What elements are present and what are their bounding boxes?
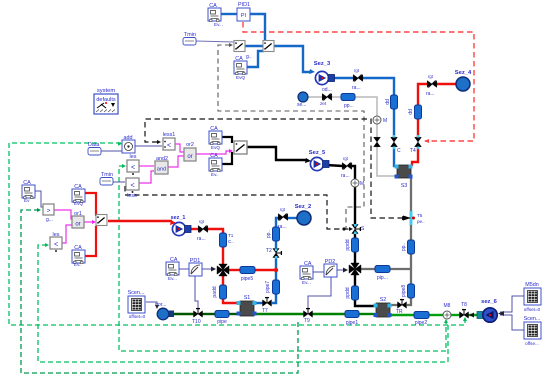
heat exchanger S2 — [374, 303, 392, 317]
svg-text:Scen...: Scen... — [128, 290, 145, 296]
block les2 — [50, 237, 62, 252]
wire blue valve C1 to S3 — [394, 145, 397, 166]
svg-text:ppdd: ppdd — [345, 239, 351, 250]
wire purple PD2 down to valve T9 — [308, 277, 331, 308]
svg-text:Sez_5: Sez_5 — [309, 150, 326, 156]
block switchR — [96, 215, 107, 226]
svg-text:od...: od... — [322, 87, 332, 93]
wire darkgreen pump rtor to valve T10 — [170, 313, 194, 315]
valve T10 on darkgreen — [194, 309, 203, 318]
svg-text:pp..: pp.. — [401, 243, 407, 251]
svg-text:Sez_2: Sez_2 — [295, 204, 311, 210]
wire black M6 down to valve S — [354, 187, 356, 225]
wire blue Sez_3 to valve ra3 — [331, 77, 354, 79]
svg-text:CA: CA — [209, 3, 217, 9]
block PID1 — [237, 8, 250, 21]
pump sez_1 — [172, 222, 191, 235]
svg-text:<: < — [54, 242, 58, 249]
svg-text:rgt: rgt — [428, 74, 434, 79]
svg-text:Ev..: Ev.. — [211, 172, 219, 177]
block Scen2 — [524, 322, 541, 339]
valve T7 on blue to S1 — [263, 298, 272, 307]
svg-text:pipe8: pipe8 — [401, 285, 407, 297]
heat exchanger S1 — [237, 301, 257, 316]
sensor se filled circle — [298, 92, 308, 102]
svg-text:se...: se... — [297, 102, 306, 108]
wire darkgreen pipe4 to S1 — [229, 313, 238, 315]
block CA red top — [72, 189, 85, 203]
junction red on blue pipe — [274, 268, 278, 272]
svg-text:offset=0: offset=0 — [129, 314, 146, 319]
valve T9 on green — [304, 309, 313, 318]
svg-text:offset=0: offset=0 — [524, 307, 541, 312]
wire purple CA4 to PD1 — [178, 268, 189, 270]
wire black valve S down through ppdd to X2 — [354, 233, 356, 263]
svg-text:or: or — [75, 222, 80, 228]
pipe rect ppdd on black sez5 line — [352, 238, 359, 252]
wire green dashed A: add block to valve T8 — [9, 143, 465, 325]
svg-text:ra...: ra... — [278, 224, 287, 230]
svg-text:EvQ: EvQ — [236, 75, 245, 80]
svg-text:T9: T9 — [304, 318, 310, 324]
svg-text:T2: T2 — [266, 248, 272, 254]
svg-text:Ev..: Ev.. — [74, 262, 82, 267]
svg-text:sez_6: sez_6 — [481, 299, 498, 305]
svg-text:T8: T8 — [461, 302, 467, 308]
svg-text:ppdd: ppdd — [345, 287, 351, 298]
wire gray dashed: switch1 down around to valve S junction — [218, 45, 364, 229]
wire blue switch2 to pump Sez_3 — [274, 46, 312, 72]
svg-text:M8: M8 — [444, 303, 451, 309]
wire blue valve ra3 down to valve C1 — [362, 78, 394, 139]
wire magenta g to or1 — [54, 210, 72, 219]
svg-text:S1: S1 — [244, 295, 251, 301]
wire blue CA3 loop to switch2 bottom — [247, 51, 264, 67]
wire purple Tmin2 to less — [113, 181, 125, 183]
GREEN-DASHED-GROUP — [9, 142, 467, 373]
sensor M8 — [443, 311, 451, 319]
svg-text:EvQ: EvQ — [74, 201, 83, 206]
wire green S1 to valve T9 — [256, 313, 304, 315]
svg-text:less1: less1 — [163, 132, 176, 138]
block and2 — [155, 161, 168, 174]
wire black Sez_5 to valve ra5 — [326, 165, 343, 166]
wire purple CA6 to g block — [34, 191, 43, 207]
arrow green into add — [118, 142, 122, 146]
wire red switchR to pump sez_1 — [108, 220, 172, 222]
block PD1 gauge — [189, 263, 202, 276]
wire gray sensor se to valve zet — [308, 96, 323, 98]
block switch1 — [234, 41, 245, 52]
wire red pump Sez_4 to valve ra4 — [437, 83, 457, 85]
pipe rect pipe5 on red X1 line — [240, 267, 255, 274]
valve ra5 on black — [342, 162, 352, 169]
pipe rect pipe8 on gray pipe — [408, 284, 415, 298]
wire magenta les2 to or1 — [62, 225, 72, 243]
svg-text:or1: or1 — [74, 211, 82, 217]
wire magenta and2 to or2 — [168, 156, 184, 167]
wire purple PD2 to X2 with arrow — [337, 269, 344, 271]
X valve X1 red circuit — [217, 264, 229, 276]
sensor T5 on gray pipe — [403, 211, 415, 225]
svg-text:CA: CA — [23, 180, 31, 186]
pump Sez_2 filled — [297, 211, 311, 225]
svg-text:CA: CA — [304, 261, 312, 267]
svg-text:rgt: rgt — [354, 68, 360, 73]
block les — [127, 160, 139, 175]
svg-text:PID1: PID1 — [238, 2, 250, 8]
svg-text:>: > — [47, 208, 51, 215]
arrow green up into M8 — [444, 319, 448, 323]
svg-text:Sez_4: Sez_4 — [455, 70, 472, 76]
valve C1 on blue riser — [391, 137, 398, 147]
svg-text:ra...: ra... — [352, 85, 361, 91]
pipe rect pip6 on gray X2 line — [375, 266, 390, 273]
svg-text:S3: S3 — [401, 183, 408, 189]
svg-text:padd: padd — [212, 286, 218, 297]
wire gray pipe pp3 to M7 riser — [355, 97, 377, 116]
svg-text:Scen...: Scen... — [524, 316, 541, 322]
block CA6 top-left — [22, 185, 35, 199]
pipe rect pipe1 on green line — [345, 311, 359, 318]
wire red CA to switchR top — [85, 193, 96, 216]
svg-text:add: add — [124, 135, 133, 141]
svg-text:Tmin: Tmin — [101, 172, 113, 178]
wire gray pipe sensor T5 down to junction — [410, 222, 412, 284]
svg-text:EvQ: EvQ — [211, 145, 220, 150]
svg-text:C: C — [397, 148, 401, 154]
wire purple M5dn to pump sez_6 — [500, 296, 524, 312]
wire black valve ra5 down to M6 — [351, 166, 355, 179]
wire purple Tmin to switch1 — [196, 41, 234, 42]
wire green dashed B: les block to sensor M8 — [119, 166, 446, 351]
valve ra2 on blue — [278, 213, 288, 220]
svg-text:pp...: pp... — [344, 103, 354, 109]
valve ra4 on red — [427, 80, 437, 87]
arrow green into les2 — [45, 243, 49, 247]
svg-text:less: less — [127, 193, 137, 199]
sensor M6 — [351, 179, 359, 187]
block Scen bottom-left — [128, 296, 145, 313]
pipe rect ppdd2 on black sez5 line — [352, 286, 359, 300]
pump Sez_4 filled — [456, 77, 470, 91]
wire red X1 right through pipe5 to blue junction — [229, 269, 240, 271]
svg-text:pipe5: pipe5 — [241, 276, 253, 282]
block CA5 at PD2 — [300, 266, 313, 280]
pipe rect pp3 on gray sensor line — [341, 94, 355, 101]
arrow into sensor T5 — [402, 216, 407, 220]
wire black switch3 to pump Sez_5 — [247, 147, 307, 160]
svg-text:dd: dd — [385, 99, 391, 105]
svg-text:C..: C.. — [228, 239, 234, 244]
valve ra1 on red — [198, 225, 208, 232]
svg-text:and: and — [157, 167, 166, 173]
wire black dashed: middle group rect from less block to valve S — [125, 186, 349, 229]
svg-text:g..: g.. — [246, 54, 252, 60]
svg-text:pipe: pipe — [217, 319, 227, 325]
valve S on black riser with actuator — [352, 225, 361, 234]
svg-text:pipe2: pipe2 — [415, 320, 427, 326]
arrow into less1 — [157, 140, 161, 144]
svg-text:zet: zet — [320, 101, 327, 106]
svg-text:CA: CA — [235, 56, 243, 62]
svg-text:Data: Data — [88, 142, 99, 148]
wire darkgreen valve T10 to pipe4 — [202, 313, 215, 315]
svg-text:pipe1: pipe1 — [346, 320, 358, 326]
block less — [126, 178, 139, 193]
svg-text:rtor...: rtor... — [155, 302, 166, 308]
svg-text:ra...: ra... — [426, 91, 435, 97]
pipe rect pipe7 on blue sez2 line — [273, 280, 280, 294]
sensor M7 — [373, 116, 381, 124]
wire magenta or1 to switchR — [84, 221, 94, 223]
arrow into valve S — [349, 227, 353, 231]
svg-text:T5: T5 — [417, 213, 423, 218]
arrow green up into T8 — [463, 317, 467, 321]
svg-text:rgt: rgt — [343, 156, 349, 161]
wire gray X2 valve to gray pipe junction — [361, 268, 375, 270]
svg-text:PI: PI — [241, 13, 247, 19]
svg-text:Ev...: Ev... — [214, 22, 223, 27]
wire magenta les to and2 — [139, 165, 154, 167]
svg-text:rgt: rgt — [280, 207, 286, 212]
wire gray valve zet to pipe pp3 — [331, 96, 341, 98]
svg-text:CA: CA — [74, 184, 82, 190]
block CA4 at PD1 — [166, 262, 179, 276]
svg-text:g...: g... — [46, 217, 53, 223]
pipe rect Cad on red sez1 line — [220, 233, 227, 247]
arrow green into g block — [37, 208, 41, 212]
pump sez_6 — [477, 308, 497, 322]
svg-text:M5dn: M5dn — [525, 282, 539, 288]
svg-text:dd: dd — [408, 109, 414, 115]
svg-text:system: system — [97, 88, 116, 94]
svg-text:Ev...: Ev... — [302, 280, 311, 285]
block or2 — [184, 148, 196, 161]
svg-text:CA: CA — [210, 126, 218, 132]
block system defaults — [94, 94, 118, 114]
wire purple PD1 down to valve T10 — [195, 276, 198, 308]
wire purple CA5 to PD2 — [312, 271, 324, 273]
wire green pipe1 to S2 — [359, 313, 375, 315]
svg-text:pe..: pe.. — [417, 219, 425, 224]
block less1 — [163, 138, 175, 150]
wire black CA to switch3 top — [222, 137, 232, 143]
svg-text:T4: T4 — [410, 148, 416, 154]
valve ra3 on blue — [353, 74, 363, 81]
arrow green into les — [122, 164, 126, 168]
wire green M8 to valve T8 — [451, 314, 460, 316]
block CA top (PID source) — [208, 8, 221, 22]
pipe rect pp4 on gray pipe below T5 — [408, 240, 415, 254]
wire red valve ra4 down to valve T4 — [418, 84, 428, 139]
wire purple Scen to pump rtor — [146, 302, 157, 306]
block M5dn — [524, 288, 541, 305]
wire gray pipe8 to valve TR into S2 — [407, 298, 411, 305]
arrow into Sez_3 — [309, 69, 315, 74]
wire green pipe2 to M8 — [429, 314, 443, 316]
X valve X2 black circuit — [349, 263, 361, 275]
svg-text:<: < — [130, 183, 134, 190]
block g greaterEqual — [43, 204, 54, 215]
svg-text:Ev: Ev — [24, 198, 30, 203]
svg-text:or: or — [187, 154, 192, 160]
wire purple Data to add — [101, 150, 122, 152]
wire purple Scen2 to pump sez_6 — [500, 315, 524, 330]
junction dashed wires — [342, 227, 345, 230]
block CA black top — [209, 131, 222, 145]
valve zet on gray — [322, 93, 332, 100]
svg-text:pip...: pip... — [377, 275, 388, 281]
wire blue pipe7 to valve T7 into S1 — [272, 294, 276, 303]
pipe rect pp2 on blue sez2 line — [273, 227, 280, 241]
svg-text:PD2: PD2 — [325, 259, 336, 265]
valve T8 on green — [460, 310, 469, 319]
wire red valve ra1 to Cad pipe — [207, 229, 223, 234]
pipe rect pipe2 on green line — [414, 312, 429, 319]
arrow red dashed into T4 — [424, 139, 429, 143]
block or1 — [72, 216, 84, 228]
wire red X1 down through padd to S1 — [222, 276, 224, 285]
wire black X2 down through ppdd2 to S2 — [355, 275, 375, 306]
svg-text:and2: and2 — [156, 156, 168, 162]
wire red sez_1 to valve ra1 — [188, 228, 199, 230]
wire red Cad down to X1 — [222, 247, 224, 264]
wire purple PD1 to X1 with arrow — [202, 268, 212, 270]
block Tmin2 const — [100, 178, 113, 186]
wire red dashed feedback: PID1 to valve T4 — [243, 22, 474, 141]
arrow into sez_1 — [170, 220, 176, 225]
block switch3 — [234, 141, 247, 154]
wire magenta less to and2 — [139, 171, 154, 183]
wire blue valve ra2 down to pp2 — [276, 218, 279, 228]
svg-text:Ev...: Ev... — [168, 276, 177, 281]
svg-text:ra...: ra... — [197, 236, 206, 242]
block CA red bottom — [72, 250, 85, 264]
wire green valve T8 to pump sez_6 with flow arrow — [468, 314, 478, 316]
wire gray pipe S3 bottom down to sensor T5 — [410, 178, 412, 214]
pipe rect padd on red to S1 — [220, 285, 227, 299]
arrow into Sez_5 — [305, 158, 311, 163]
wire green dashed C: les2 block to T-valve riser — [38, 245, 448, 362]
svg-text:M: M — [360, 181, 364, 187]
svg-text:PD1: PD1 — [190, 258, 201, 264]
wire black dashed: sensor T5 feedback to less1 block — [145, 119, 403, 218]
wire black CA to switch3 bottom — [222, 152, 232, 164]
wire gray M7 down through valve v7 to S3 — [376, 124, 378, 138]
svg-text:<: < — [167, 143, 171, 150]
block Tmin const top — [183, 38, 196, 46]
BLACKDASH-GROUP — [125, 22, 474, 231]
svg-text:pp..: pp.. — [266, 230, 272, 238]
svg-text:rgt: rgt — [199, 219, 205, 224]
wire magenta less1 to or2 — [175, 144, 184, 152]
block Data source — [88, 148, 101, 156]
svg-text:offse...: offse... — [525, 341, 539, 346]
wire blue CA to PID1 — [221, 13, 237, 15]
svg-text:or2: or2 — [186, 142, 194, 148]
block add — [122, 140, 135, 153]
svg-text:M: M — [383, 118, 387, 124]
pipe rect dd2 on red riser — [415, 105, 422, 119]
port marks cyan on risers — [275, 135, 420, 259]
svg-text:T10: T10 — [192, 319, 201, 325]
wire purple add to less1 — [135, 145, 162, 147]
wire green valve T9 to pipe1 — [312, 313, 345, 315]
wire blue pump Sez_2 to valve ra2 — [288, 217, 297, 219]
pump rtor filled — [157, 308, 174, 320]
svg-text:S2: S2 — [380, 297, 387, 303]
wire blue pp2 to valve T2 — [275, 241, 277, 249]
svg-text:T1: T1 — [228, 233, 234, 238]
pipe rect pipe4 on darkgreen line — [215, 311, 229, 318]
svg-text:CA: CA — [74, 245, 82, 251]
svg-text:CA: CA — [170, 257, 178, 263]
block CA black bottom — [209, 158, 222, 172]
valve v7 on gray riser — [374, 137, 381, 147]
wire red CA to switchR bottom — [85, 226, 96, 256]
svg-text:Tmin: Tmin — [184, 32, 196, 38]
wire green dashed D: g block to bottom bus riser — [21, 210, 298, 373]
valve TR on gray to S2 — [398, 300, 407, 309]
pump Sez_5 — [310, 157, 329, 170]
wire blue switch1 to switch2 — [245, 45, 263, 47]
wire blue valve T2 down through junction to pipe7 — [275, 257, 277, 281]
block switch2 — [263, 41, 274, 52]
valve T2 on blue riser — [273, 249, 282, 258]
WIRES-GROUP — [34, 14, 524, 330]
svg-text:TR: TR — [396, 309, 403, 315]
svg-text:Sez_3: Sez_3 — [314, 61, 331, 67]
svg-text:ra...: ra... — [341, 173, 350, 179]
svg-text:les: les — [53, 232, 60, 238]
arrow gray dashed into switch1 — [229, 43, 233, 47]
wire magenta or2 to switch3 — [196, 151, 231, 154]
heat exchanger S3 — [395, 165, 413, 179]
pipe rect dd on blue riser — [391, 95, 398, 109]
svg-text:T7: T7 — [262, 308, 268, 314]
svg-text:sez_1: sez_1 — [171, 215, 186, 221]
pump Sez_3 — [315, 71, 334, 84]
wire red valve T4 to S3 — [412, 145, 418, 166]
wire green S2 to pipe2 — [391, 314, 414, 316]
svg-text:<: < — [131, 165, 135, 172]
svg-text:les: les — [130, 154, 137, 160]
svg-text:pipe7: pipe7 — [265, 281, 271, 293]
svg-text:CA: CA — [210, 153, 218, 159]
block CA3 — [234, 61, 247, 75]
wire blue PID1 to switch2 top — [250, 14, 265, 41]
valve T4 on red riser — [415, 137, 422, 147]
block PD2 gauge — [324, 264, 337, 277]
